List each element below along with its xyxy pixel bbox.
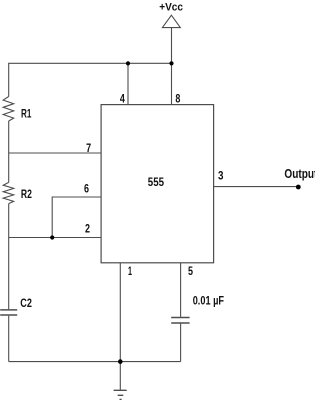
ground symbol: [114, 390, 127, 399]
wire left rail R1 to R2 (through pin7 node): [8, 121, 10, 182]
power +Vcc lead: [171, 28, 173, 64]
svg-text:4: 4: [120, 91, 125, 105]
node junction pin4 bus: [126, 61, 130, 65]
wire pin 4 lead: [127, 63, 129, 104]
svg-text:0.01 µF: 0.01 µF: [193, 294, 224, 308]
wire pin 7 lead: [9, 152, 101, 154]
wire pin 6 lead: [52, 197, 101, 238]
svg-text:5: 5: [188, 264, 193, 278]
node junction pin6-pin2: [50, 235, 54, 239]
capacitor C2: [0, 310, 17, 315]
svg-text:3: 3: [218, 169, 224, 183]
IC U1 555 body: [101, 105, 214, 263]
wire pin 5 lead: [180, 263, 182, 317]
wire left rail R2 to C2 (through pin2 node): [8, 204, 10, 310]
svg-text:2: 2: [85, 222, 90, 236]
wire pin 3 output lead: [214, 186, 299, 188]
capacitor 0.01 uF: [171, 318, 189, 324]
wire 0.01 uF lower lead: [180, 324, 182, 362]
wire C2 lower lead to bottom rail: [8, 316, 10, 362]
svg-text:7: 7: [86, 141, 91, 155]
svg-text:8: 8: [175, 91, 180, 105]
svg-text:6: 6: [84, 182, 89, 196]
wire pin 1 lead to ground: [119, 263, 121, 390]
wire top supply bus: [9, 62, 172, 64]
wire left rail upper (bus to R1): [8, 63, 10, 97]
svg-text:C2: C2: [20, 296, 32, 310]
resistor R1: [3, 97, 14, 122]
wire bottom ground rail: [9, 361, 181, 363]
resistor R2: [3, 182, 14, 203]
power +Vcc triangle: [162, 15, 180, 27]
svg-text:1: 1: [128, 264, 132, 278]
wire pin 8 lead: [171, 63, 173, 104]
node junction pin8 bus: [169, 61, 173, 65]
svg-text:+Vcc: +Vcc: [159, 2, 183, 14]
svg-text:R1: R1: [21, 107, 32, 121]
node output terminal: [296, 185, 301, 190]
svg-text:Output: Output: [284, 166, 315, 181]
wire pin 2 lead: [9, 237, 101, 239]
svg-text:R2: R2: [21, 187, 32, 201]
svg-text:555: 555: [148, 175, 164, 189]
node junction ground rail: [118, 359, 123, 364]
